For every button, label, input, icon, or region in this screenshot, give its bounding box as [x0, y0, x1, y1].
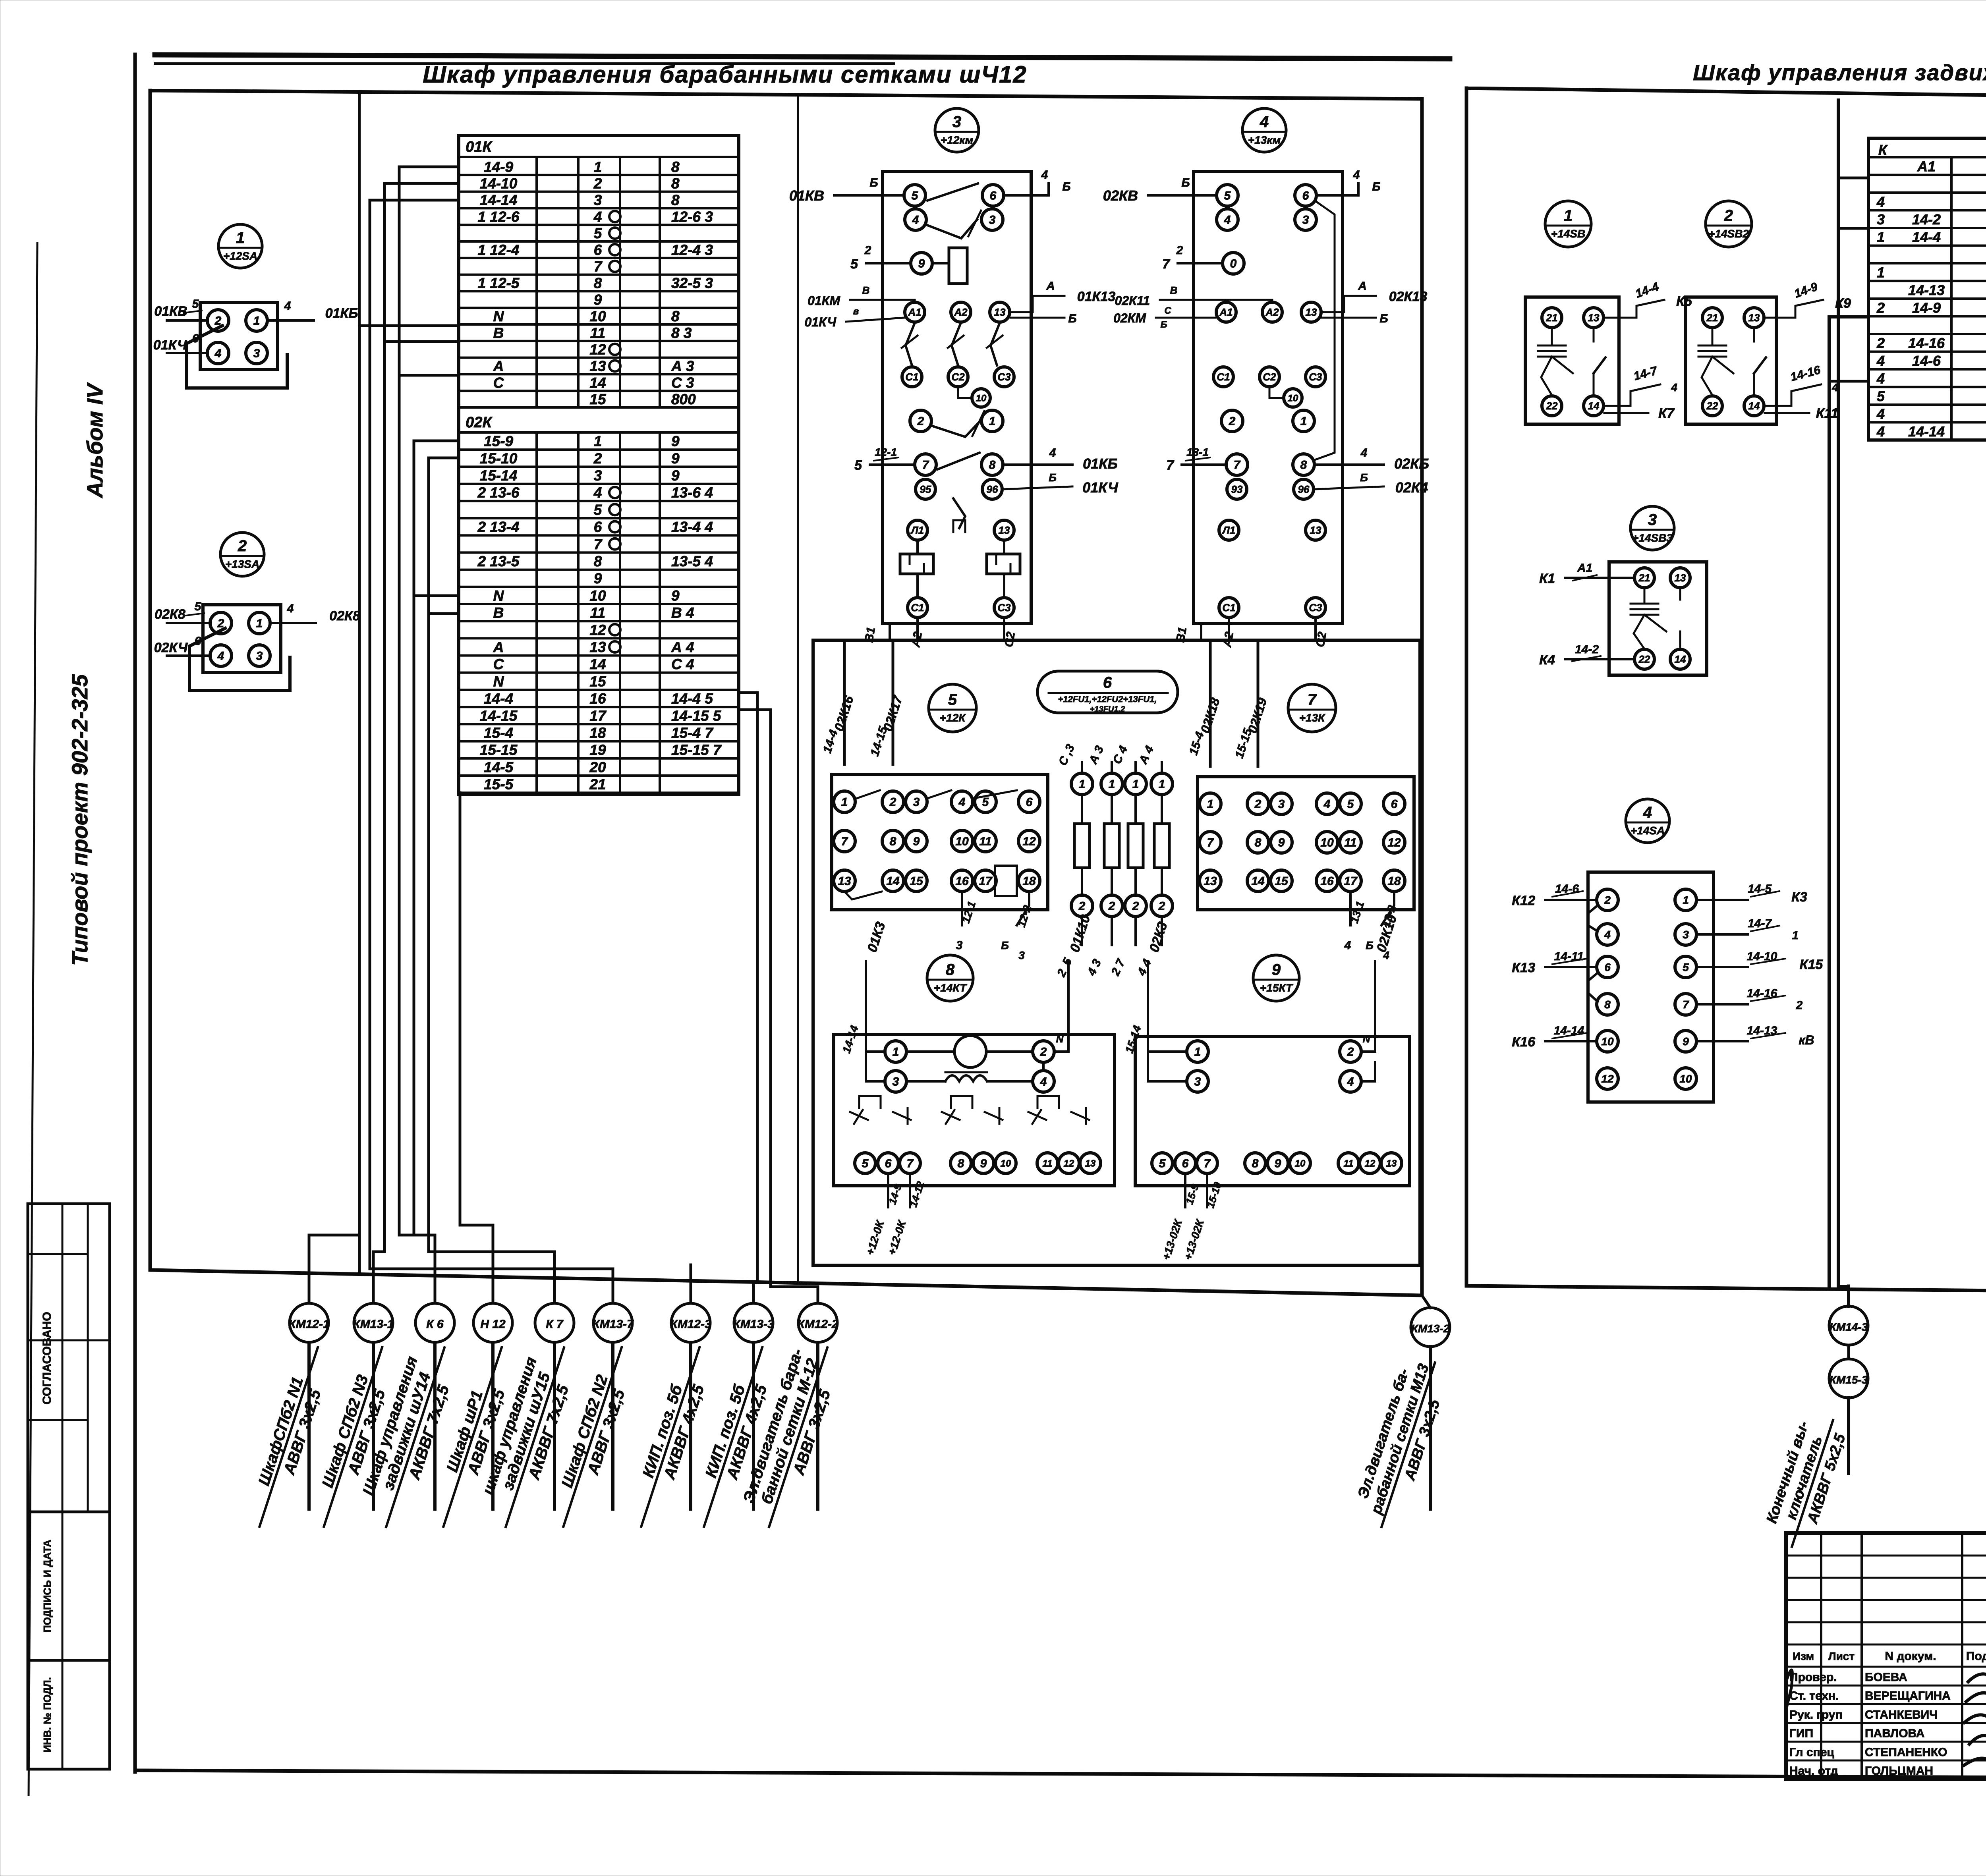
svg-text:2: 2 [1108, 900, 1115, 913]
svg-text:01КЧ: 01КЧ [153, 338, 187, 353]
wire elbow 02K row 11 [429, 612, 459, 615]
svg-text:К11: К11 [1816, 406, 1838, 421]
svg-text:4: 4 [284, 299, 291, 313]
svg-text:02К: 02К [466, 414, 493, 431]
svg-text:8: 8 [671, 308, 680, 324]
svg-text:1: 1 [256, 617, 263, 630]
svg-text:2 7: 2 7 [1109, 957, 1128, 978]
svg-text:1 12-6: 1 12-6 [478, 208, 520, 225]
svg-text:10: 10 [1679, 1073, 1692, 1085]
wire bundle elbow rows 1-3 of 01K [399, 167, 459, 1235]
svg-text:+12К: +12К [940, 712, 966, 724]
svg-text:7: 7 [594, 259, 603, 275]
svg-text:Ст. техн.: Ст. техн. [1789, 1689, 1839, 1702]
svg-text:01К: 01К [466, 139, 493, 155]
svg-text:Б: Б [1161, 319, 1167, 330]
block4 wire C1 down [1228, 618, 1230, 641]
svg-text:3: 3 [256, 650, 263, 663]
block3 wire V1 stub [889, 623, 891, 640]
svg-text:3: 3 [1683, 928, 1689, 941]
svg-text:2: 2 [593, 450, 602, 467]
svg-text:В 4: В 4 [671, 605, 694, 621]
svg-text:Б: Б [1068, 312, 1076, 325]
block3 wire 01KCH [846, 318, 904, 322]
svg-text:17: 17 [589, 708, 607, 724]
svg-text:14-5: 14-5 [484, 759, 514, 775]
svg-text:14-9: 14-9 [1793, 280, 1820, 301]
svg-text:12: 12 [1365, 1158, 1376, 1169]
wire inner-box to KM12-3 [690, 1265, 692, 1303]
cable circle КМ13-1 [354, 1303, 393, 1342]
block8 bottom wire 6 [887, 1173, 889, 1207]
svg-text:12: 12 [1387, 836, 1401, 849]
block3 wire C2-10 [958, 388, 972, 398]
component oval 6 fuse group [1037, 671, 1178, 713]
block3 wire L3-heater [1003, 541, 1005, 554]
r4 right pin 7 [1675, 994, 1696, 1015]
svg-text:13-6 4: 13-6 4 [671, 484, 713, 501]
block4 wire V1 stub [1200, 623, 1202, 640]
svg-text:С3: С3 [997, 371, 1011, 383]
svg-text:12-2: 12-2 [1015, 903, 1034, 928]
r1 wire 14-7 [1604, 384, 1660, 406]
svg-text:ИНВ. № ПОДЛ.: ИНВ. № ПОДЛ. [41, 1677, 53, 1752]
svg-text:А: А [1046, 280, 1055, 293]
svg-text:Б: Б [1366, 939, 1374, 952]
svg-text:ВЕРЕЩАГИНА: ВЕРЕЩАГИНА [1865, 1689, 1951, 1702]
svg-text:С1: С1 [1222, 602, 1235, 614]
svg-text:N докум.: N докум. [1885, 1650, 1936, 1663]
svg-text:Л1: Л1 [910, 524, 924, 536]
svg-text:12: 12 [589, 342, 606, 358]
block4 pin 7 [1226, 454, 1248, 475]
svg-text:16: 16 [955, 875, 969, 888]
block7 pins row1 [1200, 793, 1221, 814]
block4 pin 5 [1217, 185, 1238, 206]
wire elbow 02K row 10 [414, 594, 459, 597]
svg-text:15-9: 15-9 [484, 433, 513, 450]
svg-text:С2: С2 [951, 371, 965, 383]
svg-text:2: 2 [1254, 798, 1262, 811]
svg-text:9: 9 [1683, 1035, 1689, 1048]
svg-text:Шкаф управления задвижкой ш: Шкаф управления задвижкой шу14( шу15) [1693, 60, 1986, 85]
svg-text:+14SB: +14SB [1551, 228, 1585, 240]
svg-text:02К19: 02К19 [1245, 696, 1269, 735]
r4 jumper 6-8 [1588, 973, 1598, 1002]
svg-text:14-4: 14-4 [821, 728, 840, 755]
svg-text:02КВ: 02КВ [1103, 187, 1138, 204]
svg-text:К7: К7 [1658, 406, 1675, 421]
svg-text:2: 2 [917, 415, 924, 428]
margin box Soglasovano [28, 1204, 110, 1512]
svg-text:13: 13 [1310, 524, 1321, 536]
svg-text:15-10: 15-10 [480, 450, 518, 467]
block8 inductor [945, 1075, 987, 1081]
terminal 2 of block 2 [210, 612, 232, 634]
svg-text:4: 4 [593, 208, 602, 225]
r1 pin 21 [1542, 308, 1562, 328]
svg-text:8: 8 [946, 961, 955, 979]
svg-text:В: В [862, 284, 870, 296]
block3 heater 2 [987, 554, 1020, 574]
block9 pin 1 [1148, 1050, 1187, 1053]
svg-text:Б: Б [1049, 471, 1057, 484]
wire fan segment to KM13-7 [370, 1269, 613, 1303]
svg-text:2: 2 [1132, 900, 1139, 913]
svg-text:12: 12 [1022, 835, 1036, 848]
block8 pins 5 6 7 [855, 1153, 875, 1173]
block5 pins row3 [834, 870, 855, 892]
svg-text:14-14: 14-14 [840, 1024, 861, 1055]
svg-text:4: 4 [912, 214, 919, 227]
svg-text:К12: К12 [1512, 893, 1535, 908]
svg-text:5: 5 [912, 189, 919, 203]
svg-text:1: 1 [1683, 894, 1689, 906]
cable circle Н 12 [473, 1303, 512, 1342]
svg-text:15-4 7: 15-4 7 [671, 725, 714, 741]
svg-text:13: 13 [589, 639, 606, 655]
svg-text:СТЕПАНЕНКО: СТЕПАНЕНКО [1865, 1746, 1947, 1759]
svg-text:11: 11 [590, 605, 605, 621]
wire bundle elbows 02K rows [414, 441, 459, 1235]
svg-text:Б: Б [1181, 176, 1190, 189]
terminal 3 of block 1 [246, 342, 267, 364]
svg-text:1: 1 [841, 796, 848, 809]
svg-text:5: 5 [862, 1157, 869, 1170]
svg-text:01К10: 01К10 [1067, 913, 1093, 954]
svg-text:7: 7 [841, 835, 848, 848]
block9 bottom wire 6 [1184, 1173, 1186, 1207]
svg-text:Б: Б [1001, 939, 1009, 952]
svg-text:+14КТ: +14КТ [934, 982, 968, 994]
svg-text:14: 14 [1588, 400, 1600, 412]
svg-text:4: 4 [1041, 168, 1048, 181]
block3 pin 96 [982, 479, 1002, 499]
svg-text:КМ12-2: КМ12-2 [797, 1318, 838, 1331]
component circle r1 +14SB [1545, 201, 1591, 247]
svg-text:КМ12-3: КМ12-3 [670, 1318, 711, 1331]
svg-text:N: N [1363, 1033, 1371, 1045]
wire fan segment to K7 [429, 1252, 554, 1303]
svg-text:32-5 3: 32-5 3 [671, 275, 713, 291]
cable circle КМ12-3 [671, 1303, 710, 1342]
block3 wire 96 right [1002, 486, 1072, 489]
svg-text:2: 2 [1040, 1046, 1047, 1059]
cable label К 6 [433, 1342, 437, 1509]
drawing frame bottom border [135, 1770, 1986, 1779]
cable label Н 12 [491, 1342, 495, 1509]
block9 pin 4 [1340, 1071, 1361, 1092]
block8 pushbutton group 1 [859, 1096, 881, 1108]
svg-text:4: 4 [1671, 381, 1677, 394]
svg-text:7: 7 [1162, 257, 1171, 272]
svg-text:18: 18 [589, 725, 606, 741]
block8 pins 11 12 13 [1037, 1153, 1058, 1173]
svg-text:14: 14 [589, 374, 606, 391]
block8 pin 1 [866, 1050, 885, 1053]
svg-text:8: 8 [671, 176, 680, 192]
svg-text:9: 9 [594, 291, 602, 308]
svg-text:4: 4 [214, 347, 222, 360]
block4 pin C1 bottom [1219, 598, 1239, 618]
svg-text:К: К [1878, 142, 1888, 158]
r4 jumper 2-4 [1588, 905, 1598, 931]
svg-text:7: 7 [1166, 458, 1175, 473]
r3 relay symbol [1644, 588, 1646, 604]
svg-text:6: 6 [1182, 1157, 1189, 1170]
svg-text:3: 3 [253, 347, 260, 360]
svg-text:8: 8 [1252, 1157, 1259, 1170]
svg-text:13: 13 [1675, 572, 1686, 584]
component circle 4 +13KM [1242, 108, 1286, 152]
svg-text:2 13-6: 2 13-6 [477, 484, 520, 501]
block4 pin 4 [1217, 209, 1238, 230]
svg-text:9: 9 [1272, 961, 1281, 979]
svg-text:3: 3 [1194, 1075, 1201, 1089]
svg-text:3: 3 [594, 467, 602, 484]
wire 02K8 to block2 terminal 2 [167, 622, 210, 624]
svg-text:15-5: 15-5 [484, 776, 514, 793]
svg-text:17: 17 [979, 875, 993, 888]
terminal table K rows [1868, 174, 1986, 176]
block4 pin 0 [1223, 253, 1244, 274]
svg-text:15: 15 [589, 391, 607, 407]
svg-text:3: 3 [913, 796, 920, 809]
switch block r1 body [1525, 297, 1619, 424]
svg-text:8: 8 [958, 1157, 964, 1170]
svg-text:02К10: 02К10 [1374, 913, 1400, 954]
svg-text:2: 2 [1347, 1046, 1354, 1059]
left section divider line 1 [358, 91, 361, 1274]
block8 pin 3 [885, 1071, 906, 1092]
wire fan horizontal segment 3 [399, 1235, 435, 1303]
drawing frame top border left part [155, 55, 1450, 59]
block3 pin C3 [994, 367, 1014, 387]
svg-text:+14SA: +14SA [1631, 824, 1665, 837]
wire fan horizontal segment 2 [373, 1252, 384, 1303]
svg-text:11: 11 [979, 835, 991, 848]
terminal 1 of block 2 [249, 612, 270, 634]
block3 wire 8 right [1003, 463, 1072, 466]
svg-text:12: 12 [1601, 1073, 1614, 1085]
svg-text:14-15 5: 14-15 5 [671, 708, 722, 724]
svg-text:Подписи: Подписи [1966, 1650, 1986, 1663]
terminal 3 of block 2 [249, 645, 270, 666]
svg-text:12: 12 [1064, 1158, 1074, 1169]
svg-text:8: 8 [890, 835, 896, 848]
svg-text:9: 9 [918, 257, 925, 270]
component circle r4 +14SA [1626, 799, 1669, 843]
svg-text:15-14: 15-14 [480, 467, 518, 484]
svg-text:+13FU1,2: +13FU1,2 [1090, 705, 1125, 714]
relay block 9 body [1135, 1036, 1410, 1186]
svg-text:20: 20 [589, 759, 606, 775]
block4 pin 3 [1295, 209, 1316, 230]
block3 pin 10 [972, 389, 990, 407]
block4 pin 13a [1301, 302, 1321, 322]
svg-text:+13-02К: +13-02К [1160, 1218, 1185, 1262]
block3 pin 1 [981, 410, 1003, 432]
switch block r3 body [1609, 562, 1707, 675]
cable circle КМ13-3 [734, 1303, 773, 1342]
r2 wire K11 [1765, 412, 1809, 414]
svg-text:0: 0 [1230, 257, 1237, 270]
svg-text:С 4: С 4 [1111, 744, 1130, 766]
svg-text:15: 15 [910, 875, 923, 888]
cable circle KM15-3 [1829, 1359, 1868, 1398]
block3 contact 4-3 [926, 220, 977, 238]
wire elbow 01K row 13 [399, 374, 459, 377]
block8 pin 2 [1033, 1041, 1054, 1062]
component circle r2 +14SB2 [1706, 201, 1752, 247]
svg-text:13: 13 [1748, 312, 1760, 324]
svg-text:3: 3 [893, 1075, 899, 1089]
svg-text:2: 2 [1158, 900, 1165, 913]
cable circle КМ13-7 [593, 1303, 632, 1342]
r2 pin 13 [1744, 308, 1764, 328]
svg-text:2: 2 [1796, 999, 1803, 1012]
svg-text:10: 10 [1320, 836, 1334, 849]
r4 left pin 2 [1597, 889, 1618, 911]
svg-text:10: 10 [1601, 1035, 1614, 1048]
svg-text:14: 14 [886, 875, 900, 888]
block8 pins 8 9 10 [950, 1153, 971, 1173]
terminal block 1 body [200, 303, 278, 369]
block9 wire 02K3 top [1147, 961, 1149, 1052]
svg-text:1: 1 [594, 159, 602, 175]
svg-text:2: 2 [1724, 207, 1733, 224]
block9 pins 5 6 7 [1152, 1153, 1173, 1173]
block4 pin 6 [1295, 185, 1316, 206]
svg-text:К13: К13 [1512, 960, 1535, 975]
block4 pin C3 [1306, 367, 1325, 387]
cable circle К 7 [535, 1303, 574, 1342]
r4 right pin 1 [1675, 889, 1696, 911]
svg-text:13: 13 [1204, 875, 1217, 888]
svg-text:+15КТ: +15КТ [1260, 982, 1294, 994]
svg-text:1: 1 [1207, 798, 1214, 811]
svg-text:19: 19 [589, 742, 606, 758]
svg-text:4: 4 [1323, 798, 1331, 811]
svg-text:4: 4 [1876, 193, 1885, 210]
block4 pin A1 [1216, 302, 1236, 322]
block5 contact at 13 [844, 892, 882, 899]
svg-text:14-14: 14-14 [480, 192, 518, 208]
svg-text:БОЕВА: БОЕВА [1865, 1671, 1907, 1684]
block3 pin L1 [908, 520, 927, 540]
wire table K elbow 3 [1838, 177, 1868, 179]
svg-text:Б: Б [1379, 312, 1388, 325]
svg-text:4: 4 [1360, 446, 1368, 459]
svg-text:2 5: 2 5 [1055, 955, 1075, 979]
svg-text:5: 5 [1159, 1157, 1166, 1170]
block3 pin 4 [905, 209, 926, 230]
svg-text:1: 1 [253, 315, 260, 328]
svg-text:14-4: 14-4 [484, 691, 513, 707]
svg-text:15-15 7: 15-15 7 [671, 742, 722, 758]
svg-text:ГОЛЬЦМАН: ГОЛЬЦМАН [1865, 1764, 1933, 1778]
svg-text:С: С [493, 656, 504, 672]
r2 pin 21 [1702, 308, 1722, 328]
svg-text:7: 7 [922, 459, 929, 472]
terminal 2 of block 1 [207, 310, 229, 331]
svg-text:11: 11 [1344, 1158, 1354, 1169]
svg-text:Изм: Изм [1793, 1650, 1814, 1662]
svg-text:1: 1 [1792, 929, 1799, 942]
title block outline [1786, 1533, 1986, 1779]
block3 pin L3 [994, 520, 1014, 540]
svg-text:1 12-5: 1 12-5 [478, 275, 520, 291]
svg-text:КМ13-1: КМ13-1 [353, 1318, 394, 1331]
svg-text:7: 7 [594, 536, 603, 552]
cable circle KM13-2 [1422, 1295, 1430, 1308]
cable circle КМ12-2 [798, 1303, 837, 1342]
svg-text:01КМ: 01КМ [808, 293, 840, 308]
wire right-side vertical 1 to KM13-3 [739, 693, 757, 1303]
svg-text:Л1: Л1 [1222, 524, 1235, 536]
svg-text:13: 13 [999, 524, 1010, 536]
svg-text:3: 3 [1018, 949, 1025, 961]
svg-text:Альбом IV: Альбом IV [82, 382, 107, 499]
block3 wire C3 down [1003, 618, 1005, 641]
svg-text:8 3: 8 3 [671, 325, 692, 341]
svg-text:4: 4 [593, 484, 602, 501]
block3 pin 5 [904, 185, 925, 206]
svg-text:9: 9 [594, 570, 602, 587]
block4 wire 8 right [1314, 463, 1384, 466]
svg-text:С1: С1 [911, 602, 924, 614]
component circle 5 +12K [929, 684, 976, 732]
left section divider line 2 [797, 96, 799, 1283]
svg-text:К16: К16 [1512, 1035, 1536, 1050]
svg-text:10: 10 [589, 308, 606, 324]
svg-text:14-2: 14-2 [1912, 211, 1941, 228]
svg-text:10: 10 [1001, 1158, 1011, 1169]
svg-text:2: 2 [889, 796, 896, 809]
block8 pushbutton group 2 [951, 1096, 972, 1108]
svg-text:КМ12-1: КМ12-1 [288, 1318, 329, 1331]
svg-text:02КБ: 02КБ [1394, 455, 1429, 472]
svg-text:01КБ: 01КБ [325, 306, 358, 321]
cable label КМ12-3 [689, 1342, 692, 1509]
selector block r4 body [1588, 872, 1714, 1102]
svg-text:21: 21 [589, 776, 606, 793]
svg-text:4 3: 4 3 [1085, 957, 1104, 978]
svg-text:1: 1 [1194, 1046, 1201, 1059]
svg-text:ГИП: ГИП [1789, 1727, 1813, 1740]
block3 pin A1 [905, 302, 925, 322]
r4 wire K12 14-6 [1545, 899, 1597, 901]
wire 02KCH to block2 terminal 4 [167, 654, 210, 657]
svg-text:02К11: 02К11 [1115, 293, 1150, 308]
block4 pin C3 bottom [1306, 598, 1325, 618]
block8 bottom wire 7 [909, 1173, 911, 1207]
block4 pin 8 [1293, 454, 1314, 475]
svg-text:7: 7 [907, 1157, 914, 1170]
cable circle KM14-3 [1847, 1286, 1850, 1307]
svg-text:К3: К3 [1791, 890, 1807, 905]
block7 top wire 1 [1209, 642, 1212, 766]
block3 contact A2 down [952, 323, 961, 365]
wire block2 terminal 1 to 02K8 [270, 622, 316, 624]
svg-text:А1: А1 [1917, 158, 1936, 174]
svg-text:02К18: 02К18 [1198, 696, 1222, 735]
svg-text:4: 4 [1876, 423, 1885, 440]
block3 contact 13 down [991, 323, 1000, 365]
svg-text:1: 1 [1300, 415, 1307, 428]
svg-text:+12FU1,+12FU2+13FU1,: +12FU1,+12FU2+13FU1, [1058, 694, 1157, 704]
svg-text:Провер.: Провер. [1789, 1671, 1837, 1684]
